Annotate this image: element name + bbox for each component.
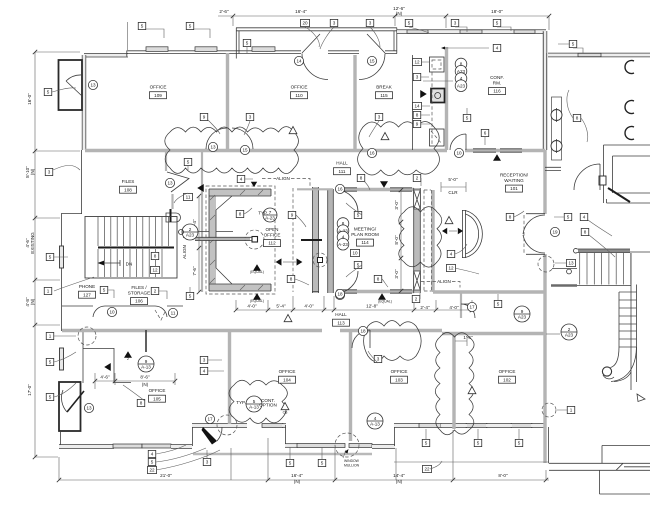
door leaf open V [167, 172, 189, 192]
keynote 4 [237, 175, 245, 182]
closet C2 [59, 382, 81, 431]
window S4 [297, 444, 345, 448]
arrow marker [378, 293, 386, 300]
tag circle 18 [335, 289, 344, 298]
keynote 3 [413, 73, 421, 80]
svg-text:3: 3 [48, 170, 51, 175]
conf east wall [543, 31, 547, 150]
svg-text:5: 5 [103, 288, 106, 293]
west wall lower [82, 331, 84, 383]
arrow marker [493, 154, 501, 161]
svg-text:13: 13 [568, 261, 574, 266]
keynote 3 [374, 355, 382, 362]
detail tag 8/A23 [455, 58, 467, 70]
keynote 11 [184, 193, 193, 200]
door D8 files storage [155, 306, 167, 317]
keynote 8 [151, 252, 159, 259]
keynote 5 [243, 39, 251, 46]
arrow marker [380, 181, 388, 188]
corner step [600, 470, 650, 494]
stair S1 treads [98, 217, 168, 277]
tag circle 13 [84, 403, 93, 412]
svg-text:101: 101 [510, 186, 518, 191]
canopy line [394, 461, 549, 463]
window S3 [262, 424, 283, 428]
svg-text:3: 3 [333, 21, 336, 26]
stair S2 stringers [619, 253, 637, 390]
window bar [60, 348, 64, 370]
office103-102 wall [452, 333, 455, 429]
svg-text:17: 17 [207, 417, 213, 422]
keynote 9 [413, 120, 421, 127]
svg-text:20: 20 [302, 21, 308, 26]
svg-text:(N): (N) [30, 168, 35, 175]
sw corner wall [60, 431, 62, 446]
tag circle 16 [335, 184, 344, 193]
svg-text:(N): (N) [142, 382, 149, 387]
svg-text:13: 13 [86, 406, 92, 411]
stair S2 landing edge [551, 284, 577, 286]
detail tag 4/A-13 [367, 413, 383, 429]
vestibule glazing [608, 188, 630, 202]
keynote 5 [186, 292, 194, 299]
svg-text:CB: CB [283, 411, 288, 415]
C column 2 [625, 101, 634, 114]
leader arrows small [163, 37, 165, 39]
protruding wall edge [183, 237, 252, 240]
ne wall east [548, 53, 650, 57]
tag circle 16 [367, 148, 376, 157]
revision cloud F [364, 320, 422, 361]
svg-text:9: 9 [203, 115, 206, 120]
meeting west wall [328, 189, 334, 293]
svg-text:7'-6": 7'-6" [192, 266, 197, 276]
tag circle 15 [367, 56, 376, 65]
door D4 conf arc [450, 134, 466, 150]
keynote 5 [493, 19, 501, 26]
south band e [394, 423, 420, 427]
svg-text:102: 102 [503, 377, 511, 382]
keynote 8 [137, 399, 145, 406]
door D2 arc [302, 34, 328, 80]
svg-text:5: 5 [253, 399, 256, 404]
svg-text:8'-0": 8'-0" [498, 473, 508, 478]
vestibule north cap [297, 188, 333, 190]
svg-text:5: 5 [497, 302, 500, 307]
hall north wall w [85, 149, 447, 152]
svg-text:BREAK: BREAK [376, 85, 393, 90]
open office east wall [313, 187, 319, 293]
arrow marker [197, 184, 204, 192]
open office vert dims [198, 196, 200, 292]
svg-text:106: 106 [135, 299, 143, 304]
door D6 meeting sw [336, 271, 358, 293]
stair enclosure wall [83, 348, 131, 383]
shaft dark square [431, 89, 445, 103]
hall north wall e [465, 149, 545, 152]
svg-text:1'-6": 1'-6" [463, 335, 473, 340]
south band entry2 [282, 423, 286, 427]
revision circle [538, 256, 554, 272]
svg-text:OPTION: OPTION [259, 403, 277, 408]
meeting east wall [414, 188, 421, 293]
door D12 vestibule [574, 164, 600, 190]
stair S2 winders [619, 292, 637, 347]
door D10 office102 [461, 304, 475, 318]
rail end loop [166, 213, 181, 222]
svg-text:11: 11 [186, 195, 191, 200]
stair S2 top rail [578, 249, 630, 252]
arrow marker [420, 90, 427, 98]
tag circle 10 [107, 307, 116, 316]
svg-text:2: 2 [568, 327, 571, 332]
corridor wall s [195, 238, 250, 240]
south band entry [192, 423, 247, 427]
svg-text:8: 8 [509, 215, 512, 220]
svg-text:3: 3 [416, 75, 419, 80]
svg-text:A23: A23 [457, 83, 466, 88]
keynote 5 [318, 459, 326, 466]
band hatch [210, 190, 263, 290]
svg-text:2: 2 [415, 297, 418, 302]
arrow marker [124, 351, 132, 358]
window S1 [113, 444, 142, 448]
svg-text:OFFICE: OFFICE [149, 388, 166, 393]
detail tag 2/A23 [182, 224, 198, 240]
keynote 5 [186, 22, 194, 29]
svg-text:HALL: HALL [335, 312, 347, 317]
door D7 phone [93, 306, 105, 317]
keynote 2 [151, 287, 159, 294]
shelf dashes V [155, 310, 166, 320]
svg-text:TYP.: TYP. [258, 211, 268, 216]
svg-text:4: 4 [583, 215, 586, 220]
keynote 22 [148, 466, 157, 473]
window W1 [146, 47, 168, 52]
svg-text:OFFICE: OFFICE [391, 369, 408, 374]
north wall east [397, 29, 546, 33]
svg-text:5'-0": 5'-0" [448, 177, 458, 182]
keynote 5 [354, 261, 362, 268]
south wall w1 [59, 444, 114, 448]
keynote 5 [405, 19, 413, 26]
svg-text:DN: DN [126, 262, 133, 267]
svg-text:3'-0": 3'-0" [394, 200, 399, 210]
reception desk [462, 210, 482, 258]
svg-text:6: 6 [484, 131, 487, 136]
door D3 arc [359, 34, 385, 80]
svg-text:16'-4": 16'-4" [291, 473, 303, 478]
dim extension [127, 22, 129, 50]
revision cloud D [399, 207, 442, 267]
pilaster [552, 97, 562, 160]
svg-text:WINDOW: WINDOW [344, 459, 360, 463]
svg-text:A-23: A-23 [338, 242, 348, 247]
keynote 5 [44, 88, 52, 95]
revision delta [468, 387, 476, 394]
svg-text:115: 115 [380, 93, 388, 98]
south step2 [285, 425, 287, 444]
keynote 2 [413, 174, 421, 181]
svg-text:FILES: FILES [122, 179, 135, 184]
hall glazing [473, 149, 522, 152]
hall113 north wall e [340, 329, 442, 332]
svg-text:5: 5 [189, 24, 192, 29]
svg-text:8: 8 [140, 401, 143, 406]
keynote 5 [286, 459, 294, 466]
files east wall a [165, 150, 167, 171]
top dimension line [218, 16, 549, 30]
svg-text:8: 8 [290, 277, 293, 282]
svg-text:5: 5 [466, 116, 469, 121]
svg-text:127: 127 [83, 292, 91, 297]
svg-text:5: 5 [321, 461, 324, 466]
vestibule inner wall [613, 156, 650, 193]
window S2 [142, 444, 171, 448]
keynote 5 [100, 286, 108, 293]
keynote 3 [375, 113, 383, 120]
newel circle [602, 367, 611, 376]
svg-text:13: 13 [167, 181, 173, 186]
svg-text:(EQUAL): (EQUAL) [378, 300, 392, 304]
svg-text:A23: A23 [565, 332, 574, 337]
arrow marker [253, 264, 261, 271]
revision delta [445, 217, 453, 224]
svg-text:5: 5 [246, 41, 249, 46]
svg-text:2: 2 [416, 176, 419, 181]
svg-text:4'-6": 4'-6" [100, 375, 110, 380]
stair S2 curved bottom [611, 347, 637, 382]
svg-text:RM.: RM. [493, 80, 501, 85]
svg-text:113: 113 [337, 320, 345, 325]
svg-text:8'-0": 8'-0" [394, 235, 399, 245]
keynote 1 [567, 406, 575, 413]
tag circle 17 [205, 414, 214, 423]
svg-text:OPEN: OPEN [265, 227, 278, 232]
keynote 4 [580, 213, 588, 220]
svg-text:14: 14 [414, 104, 420, 109]
svg-text:1: 1 [570, 408, 573, 413]
walk edge [193, 453, 372, 456]
stair S2 treads [580, 253, 631, 285]
door D5 meeting nw [336, 190, 358, 212]
svg-text:OFFICE: OFFICE [279, 369, 296, 374]
keynote 4 [447, 250, 455, 257]
svg-text:8: 8 [360, 176, 363, 181]
keynote 5 [138, 22, 146, 29]
svg-text:104: 104 [283, 377, 291, 382]
keynote 8 [581, 228, 589, 235]
svg-text:A-13: A-13 [370, 421, 380, 426]
door D1 closet1 arc [66, 75, 82, 96]
stair S1 rail [98, 247, 174, 249]
keynote 10 [351, 249, 360, 256]
keynote 1 [46, 332, 54, 339]
svg-text:ALIGN: ALIGN [437, 279, 451, 284]
svg-text:OFFICE: OFFICE [150, 85, 167, 90]
svg-text:3: 3 [377, 357, 380, 362]
revision cloud E [435, 332, 474, 434]
stair S1 outline [85, 217, 177, 279]
keynote 3 [366, 19, 374, 26]
tag leader [546, 333, 560, 335]
south wall w4 [372, 444, 395, 448]
stoop walkway [549, 446, 650, 471]
keynote 9 [288, 211, 296, 218]
door D9 office103 [352, 330, 370, 348]
tag circle 18 [358, 326, 367, 335]
counter [430, 57, 445, 72]
keynote 4 [493, 44, 501, 51]
svg-text:10: 10 [352, 251, 358, 256]
svg-text:3: 3 [206, 460, 209, 465]
reception west wall [431, 190, 434, 292]
svg-text:A-13: A-13 [249, 404, 259, 409]
tag circle 16 [335, 290, 344, 299]
files east wall b [171, 194, 173, 209]
open office wall band top [209, 189, 271, 196]
keynote 8 [506, 213, 514, 220]
svg-text:8: 8 [342, 221, 345, 226]
svg-text:8: 8 [576, 116, 579, 121]
svg-text:ALIGN: ALIGN [182, 245, 187, 259]
corridor wall e [442, 332, 545, 335]
door header bar [301, 239, 322, 241]
north marker [637, 394, 645, 402]
svg-text:8: 8 [377, 277, 380, 282]
svg-text:MULLION: MULLION [344, 464, 360, 468]
svg-text:(N): (N) [396, 11, 403, 16]
closet C1 [59, 60, 83, 110]
svg-text:16: 16 [337, 187, 343, 192]
bottom dimension line [59, 430, 549, 480]
meeting north wall [336, 188, 414, 191]
svg-text:CONF.: CONF. [490, 75, 504, 80]
svg-text:OFFICE: OFFICE [264, 232, 281, 237]
break-toilet wall [412, 55, 414, 150]
1-6 dim [455, 336, 467, 346]
svg-text:14: 14 [296, 59, 302, 64]
svg-text:17'-0": 17'-0" [27, 384, 32, 396]
window S6 [419, 424, 441, 428]
keynote 5 [46, 358, 54, 365]
south wall w2 [171, 444, 192, 448]
svg-text:111: 111 [339, 169, 346, 174]
svg-text:5: 5 [477, 441, 480, 446]
svg-text:12: 12 [448, 266, 454, 271]
window W6 [252, 47, 275, 52]
revision delta [284, 315, 292, 322]
svg-text:5: 5 [47, 90, 50, 95]
small circle [567, 269, 572, 274]
svg-text:22: 22 [149, 468, 155, 473]
keynote 3 [203, 458, 211, 465]
right wing west wall [543, 150, 546, 463]
detail tag 5/A-13 [246, 396, 262, 412]
keynote 2 [412, 295, 420, 302]
svg-text:(N): (N) [30, 298, 35, 305]
open office wall band left [209, 189, 216, 291]
door D13 closet2 [67, 391, 84, 412]
svg-text:5: 5 [408, 21, 411, 26]
protruding wall [195, 238, 250, 240]
svg-text:A-23: A-23 [265, 215, 275, 220]
keynote 8 [357, 174, 365, 181]
svg-text:5'-4": 5'-4" [276, 304, 286, 309]
svg-text:4: 4 [496, 46, 499, 51]
north wall main [127, 51, 398, 57]
leaders [52, 27, 615, 470]
keynote 8 [236, 210, 244, 217]
keynote 3 [330, 19, 338, 26]
files west wall [62, 150, 83, 331]
svg-text:15: 15 [369, 59, 375, 64]
svg-text:103: 103 [395, 377, 403, 382]
south step1 [192, 426, 194, 446]
column [252, 237, 258, 243]
svg-text:OFFICE: OFFICE [499, 369, 516, 374]
svg-text:4: 4 [342, 235, 345, 240]
svg-text:114: 114 [361, 240, 369, 245]
svg-text:12: 12 [152, 268, 158, 273]
keynote 5 [569, 40, 577, 47]
stair core wall [170, 209, 172, 222]
svg-text:EXISTING: EXISTING [30, 232, 35, 254]
arrow marker [276, 258, 282, 265]
svg-text:4: 4 [240, 177, 243, 182]
office102 door stub [460, 292, 462, 318]
svg-text:116: 116 [493, 89, 501, 94]
svg-text:9: 9 [416, 122, 419, 127]
svg-text:4'-0": 4'-0" [449, 305, 459, 310]
svg-text:(N): (N) [294, 479, 301, 484]
office104-103 wall [349, 330, 352, 441]
svg-text:3: 3 [249, 115, 252, 120]
keynote 5 [354, 211, 362, 218]
office105 dims [95, 373, 175, 389]
svg-text:4'-0": 4'-0" [247, 304, 257, 309]
svg-text:1: 1 [47, 289, 50, 294]
arrow marker [253, 293, 261, 300]
svg-text:17: 17 [469, 305, 475, 310]
meeting south wall [336, 290, 414, 293]
svg-text:5: 5 [151, 460, 154, 465]
west wall upper [82, 55, 86, 150]
keynote 12 [413, 58, 422, 65]
svg-text:4: 4 [374, 416, 377, 421]
open office bottom dims [236, 296, 472, 310]
svg-text:12'-8": 12'-8" [366, 304, 378, 309]
keynote 5 [422, 439, 430, 446]
window S8 [511, 424, 532, 428]
svg-text:2: 2 [127, 357, 129, 361]
sconce 1 [551, 110, 562, 121]
arrow marker [458, 228, 463, 234]
svg-text:3'-0": 3'-0" [394, 269, 399, 279]
entry door panel [599, 176, 606, 185]
keynote 5 [46, 393, 54, 400]
svg-text:13: 13 [90, 83, 96, 88]
south wall w3 [285, 443, 298, 447]
svg-text:5: 5 [189, 294, 192, 299]
svg-text:(N): (N) [396, 479, 403, 484]
svg-text:2'-6": 2'-6" [219, 9, 229, 14]
svg-text:18: 18 [337, 292, 343, 297]
detail tag 7/A-23 [263, 208, 277, 222]
open office wall band bottom [209, 284, 271, 291]
svg-text:10: 10 [456, 151, 462, 156]
keynote 14 [413, 102, 422, 109]
